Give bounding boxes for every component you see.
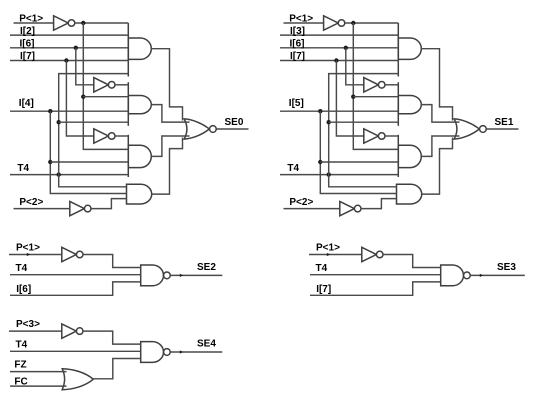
node T4 junction: [327, 172, 331, 176]
wire T4 to AND2: [329, 121, 399, 123]
wire I[7]' to AND3: [385, 135, 398, 137]
wire T4 input: [10, 174, 128, 176]
wire P<1>' to AND2: [353, 96, 398, 98]
node T4 to AND2 junction: [327, 120, 331, 124]
AND gate 3 input-side extension: [127, 135, 129, 177]
AND gate 1: [398, 38, 421, 59]
inverter P<2>: [70, 201, 85, 215]
wire I[7] input: [310, 282, 441, 295]
AND gate 2 input-side extension: [127, 82, 129, 126]
inverter P<1>: [62, 247, 77, 261]
svg-text:SE1: SE1: [495, 117, 514, 128]
wire T4 to AND2: [59, 121, 129, 123]
svg-text:P<1>: P<1>: [316, 242, 340, 253]
AND gate 4: [397, 184, 422, 204]
wire I[5] input: [280, 110, 398, 112]
wire T4 vertical branch to AND1/AND4: [329, 74, 399, 187]
OR gate FZ/FC: [62, 369, 93, 390]
wire AND2 output to NOR: [151, 105, 189, 123]
wire I[7] to inverter: [336, 61, 363, 137]
inverter I[7]: [94, 129, 109, 143]
node I[6] junction: [344, 46, 348, 50]
wire P<1>' vertical branch to AND2/AND3: [83, 23, 128, 149]
wire AND3 output to NOR: [151, 136, 189, 156]
wire SE4 output: [170, 351, 222, 353]
svg-text:I[6]: I[6]: [20, 38, 35, 49]
wire P<1>' to AND2: [83, 96, 128, 98]
wire I[7] input: [10, 60, 128, 62]
wire I[6]' to AND2: [115, 84, 128, 86]
wire I[6] input: [10, 47, 128, 49]
node P<1>' junction: [351, 21, 355, 25]
svg-text:T4: T4: [16, 263, 28, 274]
svg-text:P<2>: P<2>: [289, 197, 313, 208]
wire SE2 output: [170, 274, 222, 276]
svg-text:I[3]: I[3]: [290, 26, 305, 37]
wire T4 vertical branch to AND1/AND4: [59, 74, 129, 187]
AND gate 1 input-side extension: [397, 23, 399, 77]
node I[7] junction: [334, 58, 338, 62]
svg-text:SE2: SE2: [197, 262, 216, 273]
wire I[6] to inverter: [76, 48, 94, 85]
svg-text:FZ: FZ: [14, 360, 26, 371]
inverter P<2>: [340, 201, 355, 215]
wire AND3 output to NOR: [421, 136, 459, 156]
wire I[4] input: [10, 110, 128, 112]
AND gate 2: [128, 96, 151, 114]
wire I[4] vertical branch to AND4: [50, 111, 126, 193]
arrow tick on P<1> input: [327, 253, 330, 256]
wire P<1> input (SE3 circuit): [309, 254, 362, 256]
svg-text:I[7]: I[7]: [316, 284, 331, 295]
arrow tick on P<1> input: [27, 253, 30, 256]
node P<1>' to AND2 junction: [351, 95, 355, 99]
svg-text:FC: FC: [14, 376, 27, 387]
wire FZ input: [10, 371, 67, 373]
wire AND4 output to NOR: [422, 138, 453, 195]
svg-text:T4: T4: [17, 163, 29, 174]
wire SE0 output: [216, 128, 248, 130]
svg-text:I[6]: I[6]: [16, 284, 31, 295]
NOR gate SE0: [184, 119, 209, 139]
wire I[6] to inverter: [346, 48, 364, 85]
svg-text:P<2>: P<2>: [19, 197, 43, 208]
AND gate 3 input-side extension: [397, 135, 399, 177]
wire P<2>' to AND4: [361, 199, 397, 209]
wire FC input: [10, 385, 67, 387]
wire P<2> input: [14, 208, 70, 210]
inverter P<1>: [362, 247, 377, 261]
wire OR output to NAND: [93, 359, 140, 379]
wire P<2>' to AND4: [91, 199, 127, 209]
node I[5] to AND3 junction: [318, 160, 322, 164]
wire I[3] input: [280, 34, 398, 36]
AND gate 3: [128, 145, 151, 167]
svg-text:SE3: SE3: [497, 262, 516, 273]
wire SE3 output: [470, 274, 525, 276]
svg-text:P<3>: P<3>: [16, 319, 40, 330]
svg-text:I[4]: I[4]: [19, 98, 34, 109]
arrow tick on SE3 output: [480, 274, 483, 277]
arrow tick on SE4 output: [180, 350, 183, 353]
wire I[7]' to AND3: [115, 135, 128, 137]
svg-text:SE0: SE0: [225, 117, 244, 128]
node P<1>' junction: [81, 21, 85, 25]
AND gate 1: [128, 38, 151, 59]
wire I[7] input: [280, 60, 398, 62]
wire I[6]' to AND2: [385, 84, 398, 86]
NAND gate SE3 bubble: [464, 272, 471, 279]
NOR gate SE0 bubble: [210, 126, 217, 133]
svg-text:T4: T4: [16, 339, 28, 350]
wire P<3>' to NAND: [83, 331, 141, 344]
inverter P<1>: [54, 16, 69, 30]
inverter I[6]: [94, 78, 109, 92]
wire I[2] input: [10, 34, 128, 36]
svg-text:P<1>: P<1>: [289, 14, 313, 25]
wire AND4 output to NOR: [152, 138, 183, 195]
AND gate 2 input-side extension: [397, 82, 399, 126]
inverter P<1>: [324, 16, 339, 30]
wire P<1>' to NAND: [383, 255, 441, 268]
node I[4] junction: [48, 109, 52, 113]
NAND gate SE4: [141, 342, 164, 363]
wire P<2> input: [284, 208, 340, 210]
wire P<1>' vertical branch to AND2/AND3: [353, 23, 398, 149]
wire P<1>' to AND1: [345, 22, 399, 24]
node I[7] junction: [64, 58, 68, 62]
wire P<1> input (SE1 circuit): [284, 22, 324, 24]
wire I[7] to inverter: [66, 61, 93, 137]
NOR gate SE1: [454, 119, 479, 139]
wire AND2 output to NOR: [421, 105, 459, 123]
node T4 junction: [57, 172, 61, 176]
AND gate 3: [398, 145, 421, 167]
svg-text:P<1>: P<1>: [16, 242, 40, 253]
svg-text:T4: T4: [316, 263, 328, 274]
wire T4 input: [280, 174, 398, 176]
wire T4 input: [310, 274, 441, 276]
NAND gate SE2: [141, 265, 164, 286]
svg-text:I[5]: I[5]: [289, 98, 304, 109]
wire AND1 output to NOR: [151, 49, 182, 121]
NAND gate SE2 bubble: [164, 272, 171, 279]
svg-text:I[7]: I[7]: [290, 51, 305, 62]
svg-text:SE4: SE4: [197, 338, 216, 349]
svg-text:I[7]: I[7]: [20, 51, 35, 62]
inverter P<3>: [62, 324, 77, 338]
wire T4 input: [10, 350, 141, 352]
AND gate 4: [127, 184, 152, 204]
wire I[6] input: [10, 282, 141, 295]
node I[5] junction: [318, 109, 322, 113]
node I[4] to AND3 junction: [48, 160, 52, 164]
arrow tick on SE2 output: [180, 274, 183, 277]
wire I[6] input: [280, 47, 398, 49]
AND gate 2: [398, 96, 421, 114]
wire P<1>' to NAND: [83, 255, 141, 268]
node P<1>' to AND2 junction: [81, 95, 85, 99]
wire P<3> input (SE4 circuit): [9, 330, 62, 332]
svg-text:I[6]: I[6]: [290, 38, 305, 49]
inverter I[6]: [364, 78, 379, 92]
node T4 to AND2 junction: [57, 120, 61, 124]
wire AND1 output to NOR: [421, 49, 452, 121]
wire I[4] to AND3: [50, 161, 128, 163]
wire T4 input: [10, 274, 141, 276]
svg-text:I[2]: I[2]: [20, 26, 35, 37]
NOR gate SE1 bubble: [480, 126, 487, 133]
svg-text:T4: T4: [287, 163, 299, 174]
wire P<1> input (SE0 circuit): [14, 22, 54, 24]
AND gate 1 input-side extension: [127, 23, 129, 77]
wire P<1>' to AND1: [75, 22, 129, 24]
wire SE1 output: [486, 128, 518, 130]
inverter I[7]: [364, 129, 379, 143]
wire P<1> input (SE2 circuit): [9, 254, 62, 256]
svg-text:P<1>: P<1>: [19, 14, 43, 25]
NAND gate SE4 bubble: [164, 349, 171, 356]
node I[6] junction: [74, 46, 78, 50]
wire I[5] vertical branch to AND4: [320, 111, 396, 193]
wire I[5] to AND3: [320, 161, 398, 163]
NAND gate SE3: [441, 265, 464, 286]
